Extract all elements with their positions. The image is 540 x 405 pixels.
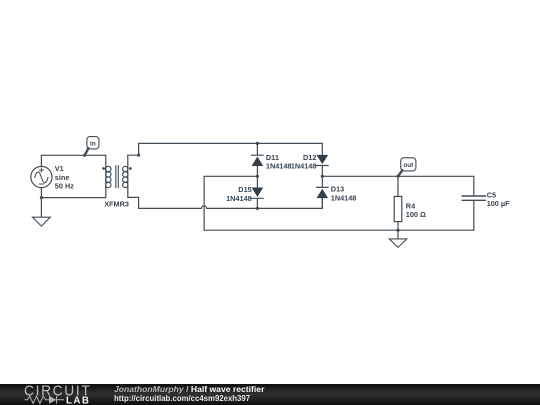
label D11 value — [266, 153, 292, 170]
voltage source V1 — [31, 166, 52, 187]
wire left vertical to bottom rail — [203, 176, 205, 230]
svg-text:D15: D15 — [238, 185, 251, 194]
footer byline — [114, 385, 264, 404]
footer bar — [0, 384, 540, 405]
transformer XFMR3 — [102, 155, 132, 197]
svg-text:V1: V1 — [55, 164, 64, 173]
svg-text:100 Ω: 100 Ω — [406, 210, 426, 219]
junction top rail D11 — [256, 142, 259, 145]
junction R4 ground — [396, 229, 399, 232]
junction V1 ground — [40, 196, 43, 199]
svg-text:LAB: LAB — [66, 396, 90, 405]
capacitor C5 — [462, 176, 486, 230]
node dot secondary top corner — [137, 154, 140, 157]
diode D13 — [316, 187, 328, 198]
wire bridge bottom rail with hop — [139, 206, 323, 209]
label R4 value — [406, 202, 426, 220]
svg-text:100 µF: 100 µF — [487, 199, 510, 208]
svg-text:1N4148: 1N4148 — [266, 161, 292, 170]
ground (below R4) — [389, 239, 407, 248]
wire mid rail right — [322, 175, 474, 177]
wire mid rail left — [204, 175, 257, 177]
svg-text:D13: D13 — [331, 185, 344, 194]
CircuitLab logo — [23, 384, 93, 404]
label XFMR3 — [104, 199, 129, 208]
svg-text:1N4148: 1N4148 — [331, 194, 357, 203]
wire secondary bottom jog — [128, 197, 139, 208]
wire right column segments — [321, 143, 323, 208]
node in flag — [83, 137, 99, 157]
label D15 value — [226, 185, 252, 203]
wire bottom rail — [204, 229, 474, 231]
wire V1 top to primary — [41, 155, 105, 166]
wire V1 to ground — [40, 198, 42, 218]
diode D12 — [316, 155, 328, 166]
svg-text:1N4148: 1N4148 — [291, 161, 317, 170]
svg-text:in: in — [90, 141, 96, 148]
label D12 value — [291, 153, 317, 170]
wire left column segments — [256, 143, 258, 208]
svg-text:out: out — [403, 162, 414, 169]
label C5 value — [487, 191, 510, 208]
node out flag — [396, 158, 416, 178]
svg-text:1N4148: 1N4148 — [226, 194, 252, 203]
wire V1 bottom to primary — [41, 188, 105, 198]
wire top rail — [139, 142, 323, 144]
ground (below V1) — [33, 217, 51, 226]
junction D12 D13 — [321, 175, 324, 178]
diode D15 — [252, 188, 264, 199]
junction D11 D15 — [256, 175, 259, 178]
wire R4 to ground — [397, 230, 399, 239]
resistor R4 — [394, 176, 402, 230]
label V1 value — [55, 164, 74, 191]
svg-text:XFMR3: XFMR3 — [104, 199, 129, 208]
label D13 value — [331, 185, 357, 203]
wire secondary top to top rail — [128, 143, 139, 155]
svg-text:50 Hz: 50 Hz — [55, 182, 74, 191]
wire right column bottom up to D13 — [321, 198, 323, 208]
diode D11 — [252, 155, 264, 166]
junction D15 bottom — [256, 207, 259, 210]
svg-text:sine: sine — [55, 173, 70, 182]
